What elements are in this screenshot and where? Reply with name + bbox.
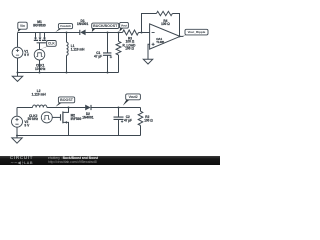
svg-text:100 Ω: 100 Ω <box>144 118 153 122</box>
wire buck ground rail <box>18 72 119 74</box>
node junction op-amp output <box>179 35 181 37</box>
CircuitLab logo row 2 <box>11 160 33 165</box>
diode D2 <box>85 105 90 111</box>
node junction L1 bottom <box>66 72 68 74</box>
inductor L2 <box>33 105 47 108</box>
capacitor C2 <box>114 108 124 136</box>
node junction C1 top <box>107 32 109 34</box>
footer title line <box>48 156 98 160</box>
wire feedback left and top <box>142 14 157 33</box>
node junction C1 bottom <box>107 72 109 74</box>
resistor R2 <box>138 108 143 136</box>
svg-text:Vswitch: Vswitch <box>60 24 72 28</box>
wire top rail D1 anode to R3 <box>86 32 123 34</box>
svg-text:CLK: CLK <box>48 42 55 46</box>
footer url line <box>48 160 97 164</box>
svg-text:1N4001: 1N4001 <box>77 22 89 26</box>
transistor M1 PMOS <box>34 33 46 50</box>
wire feedback right leg to output <box>172 14 179 37</box>
svg-text:Vout_Ripple: Vout_Ripple <box>188 30 206 34</box>
svg-text:100 Ω: 100 Ω <box>125 47 134 51</box>
node junction C2 top <box>118 107 120 109</box>
svg-text:100 Ω: 100 Ω <box>161 22 170 26</box>
wire top rail R3 to op-amp inverting input <box>139 32 150 34</box>
wire top rail V1 to M1 source <box>18 32 36 34</box>
node flag CLK <box>41 45 52 49</box>
diode D1 <box>80 30 85 36</box>
svg-text:TL081: TL081 <box>156 40 165 44</box>
svg-text:Vout2: Vout2 <box>128 95 137 99</box>
svg-text:47 µF: 47 µF <box>94 54 102 58</box>
ground symbol G1 <box>12 73 22 82</box>
clock source CLK2 <box>41 112 52 123</box>
node junction M2 drain <box>68 107 70 109</box>
node junction L1 top <box>66 32 68 34</box>
node junction R_LOAD top <box>118 32 120 34</box>
capacitor C1 <box>103 33 112 73</box>
inductor L1 <box>67 33 69 73</box>
resistor R4 <box>156 11 172 15</box>
svg-text:1.119 mH: 1.119 mH <box>32 93 47 97</box>
wire boost ground rail <box>17 135 141 137</box>
wire boost top rail D2 to R2 <box>90 107 140 109</box>
node flag BUCK/BOOST <box>92 27 97 32</box>
svg-text:9 V: 9 V <box>24 123 30 127</box>
node flag BOOST <box>56 102 64 107</box>
resistor R_LOAD <box>116 33 121 73</box>
resistor R3 <box>123 30 139 35</box>
op-amp OA1 <box>150 24 180 49</box>
wire boost top rail V2 corner to L2 <box>17 107 33 109</box>
node flag Vin <box>18 28 23 32</box>
wire op-amp output <box>180 35 184 37</box>
footer bar <box>0 156 220 166</box>
node flag Vswitch <box>55 27 63 32</box>
svg-text:Vin: Vin <box>20 24 25 28</box>
clock source CLK1 <box>34 49 45 72</box>
wire top rail M1 region to L1 node <box>36 32 67 34</box>
node junction V1 ground <box>17 72 19 74</box>
svg-text:50 kHz: 50 kHz <box>28 117 39 121</box>
wire CLK2 to M2 gate <box>52 116 60 118</box>
transistor M2 NMOS <box>61 108 69 136</box>
svg-text:1N4001: 1N4001 <box>82 115 94 119</box>
svg-text:BUCK/BOOST: BUCK/BOOST <box>93 24 118 28</box>
svg-text:BOOST: BOOST <box>60 98 74 102</box>
wire top rail L1 node to D1 cathode <box>67 32 81 34</box>
node junction CLK1 to rail <box>39 72 41 74</box>
voltage source V2 <box>12 108 23 136</box>
wire boost top rail L2 to D2 <box>47 107 86 109</box>
node junction V2 ground <box>16 135 18 137</box>
svg-text:9 V: 9 V <box>24 53 30 57</box>
ground symbol G3 <box>12 136 22 144</box>
voltage source V1 <box>12 33 23 73</box>
node junction feedback tap <box>141 32 143 34</box>
svg-text:1.119 mH: 1.119 mH <box>71 47 85 51</box>
svg-text:10 kHz: 10 kHz <box>35 67 46 71</box>
wire op-amp non-inverting input to ground <box>148 44 150 59</box>
node flag Vout_Ripple <box>181 34 191 37</box>
svg-text:Vout: Vout <box>121 23 127 27</box>
node flag Vout2 <box>123 99 131 106</box>
svg-text:47 µF: 47 µF <box>124 118 132 122</box>
node flag Vout <box>119 27 125 32</box>
CircuitLab logo row 1 <box>10 156 33 161</box>
svg-text:IRF530: IRF530 <box>71 117 82 121</box>
svg-text:IRF9530: IRF9530 <box>33 24 46 28</box>
ground symbol G2 <box>143 59 152 64</box>
